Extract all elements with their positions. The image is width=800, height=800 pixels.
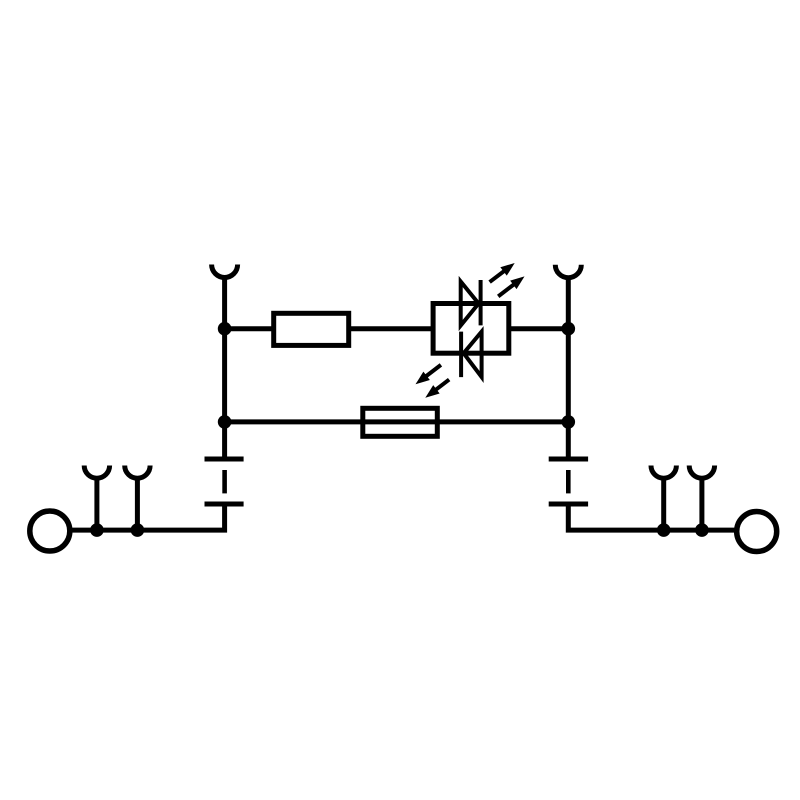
disconnect left plate 2 [205,502,244,507]
LED D2 cathode bar [459,332,463,378]
junction dot BL2 [131,523,145,537]
terminal clamp TL [212,265,238,278]
LED light arrow 2 [495,272,528,300]
test socket right [737,512,777,552]
junction dot upper-left [218,322,232,336]
junction dot lower-left [218,415,232,429]
LED light arrow 1 [486,259,517,286]
disconnect left link dash [222,470,227,493]
disconnect left plate 1 [205,457,244,462]
clamp BL1 stem [94,478,99,530]
clamp BL2 stem [135,478,140,530]
wire: right vertical bus [566,277,571,461]
LED block outline [433,304,509,354]
clamp BR2 stem [699,478,704,530]
wire: right lower vertical + bottom run [568,504,737,530]
disconnect right link dash [566,470,571,493]
wire: left lower vertical + bottom run [70,504,225,530]
clamp BL2 arc [125,466,150,479]
terminal clamp TR [555,265,581,278]
wire: upper row middle segment [350,326,434,331]
junction dot BR1 [657,523,671,537]
disconnect right plate 1 [549,457,588,462]
junction dot BR2 [695,523,709,537]
clamp BR1 arc [651,466,676,479]
test socket left [30,511,70,551]
LED D1 cathode bar [479,280,483,325]
wire: upper row left segment [225,326,272,331]
LED D2 anode triangle [464,332,482,377]
LED light arrow 3 [412,361,444,389]
junction dot lower-right [562,415,576,429]
LED D1 anode triangle [461,282,479,326]
junction dot BL1 [90,523,104,537]
disconnect right plate 2 [549,502,588,507]
clamp BR1 stem [661,478,666,530]
wire: upper row right segment [508,326,568,331]
wire: lower row [225,419,569,424]
clamp BL1 arc [84,466,109,479]
resistor R [274,313,349,345]
LED light arrow 4 [422,375,452,402]
clamp BR2 arc [689,466,714,479]
wire: left vertical bus [222,277,227,461]
fuse F [363,408,438,436]
junction dot upper-right [562,322,576,336]
